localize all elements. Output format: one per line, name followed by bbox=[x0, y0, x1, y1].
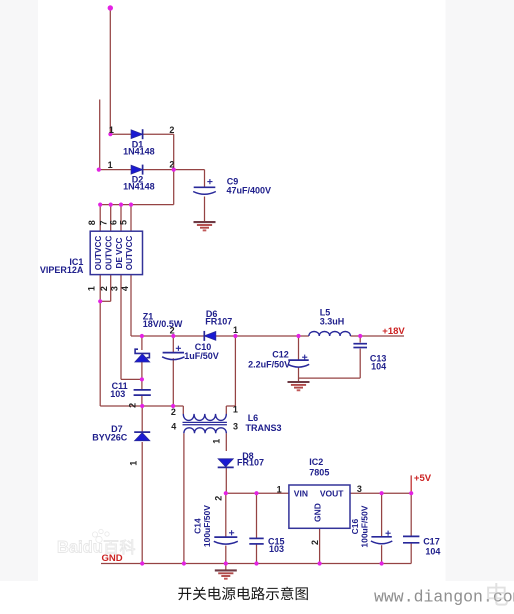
svg-text:3: 3 bbox=[357, 484, 362, 494]
svg-text:1N4148: 1N4148 bbox=[123, 146, 155, 156]
svg-text:4: 4 bbox=[120, 286, 130, 291]
svg-text:4: 4 bbox=[171, 421, 176, 431]
svg-text:DE VCC: DE VCC bbox=[115, 237, 124, 268]
svg-text:2: 2 bbox=[169, 125, 174, 135]
svg-text:47uF/400V: 47uF/400V bbox=[227, 186, 272, 196]
svg-text:100uF/50V: 100uF/50V bbox=[202, 505, 212, 547]
svg-text:3.3uH: 3.3uH bbox=[320, 317, 345, 327]
svg-text:2: 2 bbox=[127, 403, 137, 408]
svg-text:TRANS3: TRANS3 bbox=[246, 423, 282, 433]
svg-text:2: 2 bbox=[169, 160, 174, 170]
svg-text:18V/0.5W: 18V/0.5W bbox=[143, 319, 183, 329]
svg-text:BYV26C: BYV26C bbox=[92, 432, 128, 442]
svg-text:1: 1 bbox=[109, 125, 114, 135]
svg-text:1: 1 bbox=[108, 160, 113, 170]
svg-text:+18V: +18V bbox=[382, 326, 405, 337]
svg-text:2: 2 bbox=[213, 496, 223, 501]
svg-text:C17: C17 bbox=[423, 536, 440, 546]
svg-text:IC2: IC2 bbox=[309, 457, 323, 467]
svg-text:FR107: FR107 bbox=[205, 317, 232, 327]
svg-text:OUTVCC: OUTVCC bbox=[125, 236, 134, 271]
svg-text:103: 103 bbox=[110, 389, 125, 399]
svg-text:C16: C16 bbox=[350, 519, 360, 535]
svg-text:GND: GND bbox=[312, 503, 322, 522]
svg-text:100uF/50V: 100uF/50V bbox=[360, 505, 370, 547]
svg-text:3: 3 bbox=[110, 286, 120, 291]
svg-text:VIN: VIN bbox=[294, 489, 308, 499]
svg-text:+5V: +5V bbox=[414, 473, 432, 484]
svg-text:1: 1 bbox=[86, 286, 96, 291]
svg-text:1: 1 bbox=[212, 439, 222, 444]
svg-text:104: 104 bbox=[371, 362, 386, 372]
svg-text:5: 5 bbox=[118, 220, 128, 225]
svg-text:C14: C14 bbox=[193, 518, 203, 534]
svg-text:OUTVCC: OUTVCC bbox=[94, 236, 103, 271]
svg-text:7805: 7805 bbox=[309, 467, 329, 477]
svg-text:GND: GND bbox=[102, 553, 123, 564]
svg-text:7: 7 bbox=[99, 220, 109, 225]
svg-text:8: 8 bbox=[87, 220, 97, 225]
svg-text:6: 6 bbox=[108, 220, 118, 225]
svg-text:L6: L6 bbox=[248, 413, 259, 423]
svg-text:2.2uF/50V: 2.2uF/50V bbox=[248, 360, 290, 370]
svg-text:1N4148: 1N4148 bbox=[123, 181, 155, 191]
svg-text:C12: C12 bbox=[272, 349, 289, 359]
svg-text:1: 1 bbox=[233, 325, 238, 335]
svg-text:2: 2 bbox=[171, 407, 176, 417]
svg-text:OUTVCC: OUTVCC bbox=[105, 236, 114, 271]
svg-text:2: 2 bbox=[170, 326, 175, 336]
svg-text:FR107: FR107 bbox=[237, 458, 264, 468]
svg-text:www.diangon.com: www.diangon.com bbox=[374, 588, 514, 607]
svg-text:1: 1 bbox=[128, 461, 138, 466]
svg-text:2: 2 bbox=[310, 540, 320, 545]
svg-text:1uF/50V: 1uF/50V bbox=[184, 351, 219, 361]
svg-text:103: 103 bbox=[269, 544, 284, 554]
svg-text:2: 2 bbox=[99, 286, 109, 291]
svg-text:104: 104 bbox=[425, 547, 440, 557]
svg-text:1: 1 bbox=[233, 404, 238, 414]
svg-text:VOUT: VOUT bbox=[320, 489, 344, 499]
svg-text:VIPER12A: VIPER12A bbox=[40, 265, 84, 275]
svg-text:3: 3 bbox=[233, 422, 238, 432]
svg-text:1: 1 bbox=[277, 484, 282, 494]
